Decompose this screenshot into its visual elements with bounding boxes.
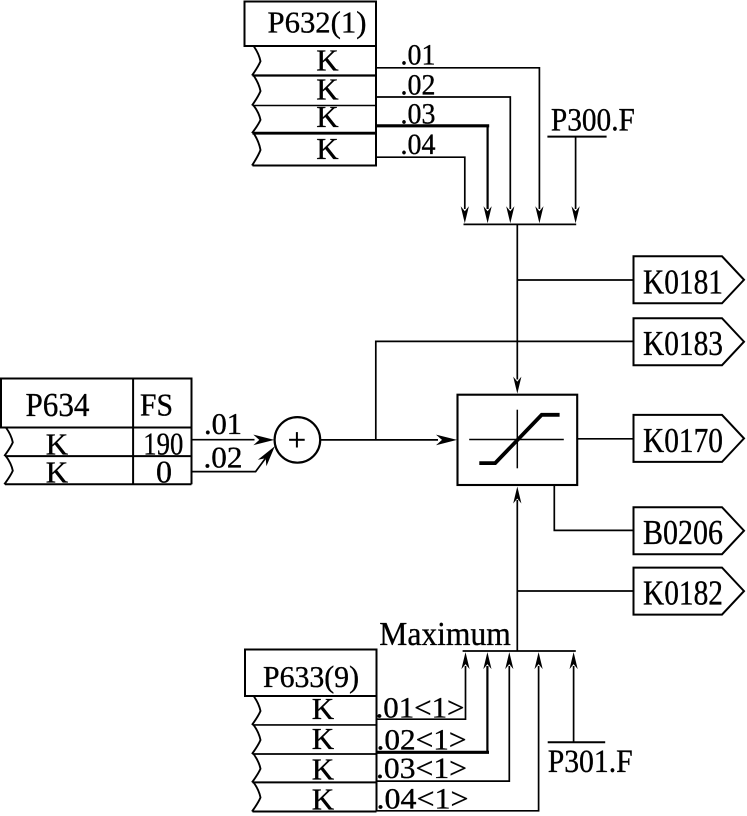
tag K0182 bbox=[634, 568, 745, 615]
parameter table P633(9) header box bbox=[245, 650, 377, 697]
table P633 right edge bbox=[376, 696, 378, 812]
table P632 right edge bbox=[375, 45, 377, 167]
svg-text:.02: .02 bbox=[204, 440, 243, 475]
limiter vertical axis bbox=[516, 410, 518, 469]
tag B0206 bbox=[634, 507, 745, 554]
wire P633 index .04 bbox=[377, 666, 539, 811]
wire to K0181 bbox=[517, 279, 633, 281]
table P632 row separator 2 bbox=[253, 105, 377, 107]
parameter table P634 header box bbox=[1, 379, 192, 428]
table P632 torn left edge bbox=[252, 46, 261, 166]
wire P633 index .01 bbox=[377, 666, 466, 719]
table P633 row separator 3 bbox=[253, 781, 377, 783]
svg-text:.01<1>: .01<1> bbox=[376, 691, 465, 724]
wire to K0183 (branch from summer output) bbox=[376, 341, 634, 440]
svg-text:B0206: B0206 bbox=[643, 513, 723, 552]
svg-text:K0183: K0183 bbox=[643, 324, 723, 363]
wire summer output to limiter bbox=[320, 439, 438, 441]
wire P633 index .02 (bold selected) bbox=[377, 751, 490, 754]
summing junction circle bbox=[275, 417, 321, 463]
svg-text:K: K bbox=[316, 99, 339, 134]
svg-text:K0181: K0181 bbox=[643, 262, 723, 301]
table P634 column divider bbox=[132, 379, 134, 485]
table P632 bottom edge bbox=[253, 165, 377, 167]
svg-text:.04: .04 bbox=[401, 128, 436, 161]
table P633 row separator 2 bbox=[253, 753, 377, 755]
svg-text:.03<1>: .03<1> bbox=[376, 752, 467, 785]
svg-text:K: K bbox=[46, 454, 69, 489]
svg-text:.01: .01 bbox=[401, 39, 436, 72]
wire P632 index .03 (bold selected) bbox=[376, 124, 489, 127]
wire maximum bar to limiter bottom bbox=[516, 500, 518, 651]
tag K0183 bbox=[634, 318, 745, 365]
table P634 torn left edge bbox=[4, 428, 13, 485]
wire P632 index .04 bbox=[376, 157, 465, 209]
wire P300.F bbox=[575, 137, 577, 209]
table P634 right edge bbox=[191, 428, 193, 485]
limiter horizontal axis bbox=[469, 439, 564, 441]
wire to K0182 bbox=[517, 590, 633, 592]
svg-text:.03: .03 bbox=[401, 98, 436, 131]
svg-text:Maximum: Maximum bbox=[379, 616, 511, 653]
svg-text:0: 0 bbox=[156, 454, 172, 490]
tag K0181 bbox=[634, 256, 745, 303]
svg-text:P632(1): P632(1) bbox=[268, 5, 367, 40]
svg-text:P300.F: P300.F bbox=[551, 103, 635, 139]
wire P634 index .01 bbox=[192, 439, 255, 441]
P300.F underline bbox=[547, 136, 606, 138]
svg-text:K0170: K0170 bbox=[643, 421, 723, 460]
svg-text:K0182: K0182 bbox=[643, 574, 723, 613]
svg-text:FS: FS bbox=[140, 387, 173, 423]
wire P301.F bbox=[573, 666, 575, 742]
limiter block box bbox=[458, 395, 578, 485]
tag K0170 bbox=[634, 415, 745, 462]
wire limiter to B0206 bbox=[554, 485, 633, 530]
table P633 bottom edge bbox=[253, 811, 377, 813]
wire P632 index .01 bbox=[376, 68, 539, 209]
table P634 bottom edge bbox=[5, 483, 192, 485]
top junction bar bbox=[464, 223, 577, 225]
svg-text:.01: .01 bbox=[204, 406, 242, 441]
limiter saturation curve bbox=[479, 415, 559, 463]
svg-text:.04<1>: .04<1> bbox=[377, 783, 469, 816]
P301.F overline bbox=[548, 741, 606, 743]
table P632 row separator 1 bbox=[253, 74, 377, 76]
wire P632 index .02 bbox=[376, 97, 510, 209]
svg-text:P301.F: P301.F bbox=[548, 744, 633, 780]
table P634 row separator bbox=[5, 455, 192, 457]
bottom junction bar bbox=[463, 650, 576, 652]
wire bar to limiter top bbox=[516, 224, 518, 379]
table P633 row separator 1 bbox=[253, 724, 377, 726]
table P632 row separator 3 (bold) bbox=[253, 132, 377, 135]
table P633 torn left edge bbox=[252, 696, 261, 812]
svg-text:K: K bbox=[312, 781, 335, 816]
wire P634 index .02 bbox=[192, 458, 266, 471]
wire P633 index .03 bbox=[377, 666, 510, 781]
parameter table P632(1) header box bbox=[245, 2, 377, 47]
wire limiter output to K0170 bbox=[577, 438, 633, 440]
svg-text:K: K bbox=[316, 131, 339, 166]
plus sign bbox=[289, 439, 305, 441]
svg-text:P634: P634 bbox=[26, 387, 90, 424]
svg-text:P633(9): P633(9) bbox=[263, 659, 359, 694]
